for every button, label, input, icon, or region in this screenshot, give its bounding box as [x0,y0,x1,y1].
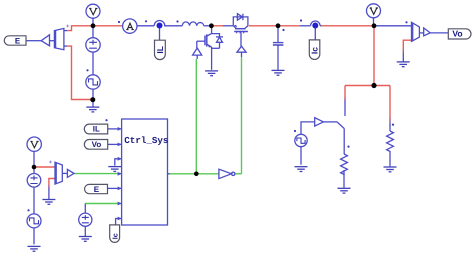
svg-text:IL: IL [155,46,165,54]
svg-text:Ic: Ic [111,233,120,239]
svg-text:IL: IL [93,125,100,134]
svg-text:Ic: Ic [310,47,320,54]
svg-text:+: + [49,160,53,166]
svg-text:Ctrl_Sys: Ctrl_Sys [124,135,168,146]
svg-text:E: E [15,36,21,45]
svg-text:+: + [66,24,70,30]
svg-text:Vo: Vo [452,29,462,39]
svg-text:E: E [94,185,100,194]
svg-text:Vo: Vo [92,140,102,149]
